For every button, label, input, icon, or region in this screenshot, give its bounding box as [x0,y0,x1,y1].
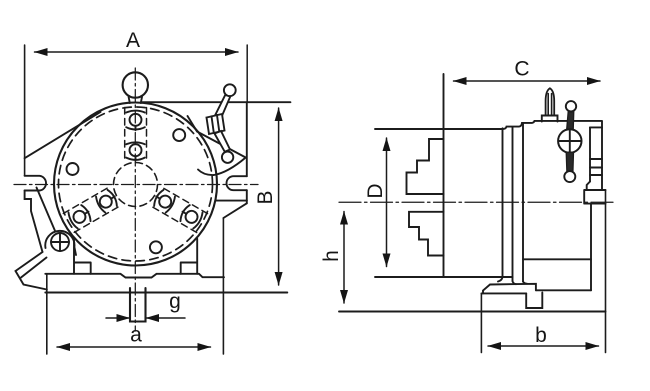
left edge below slot [25,191,43,253]
dimension A line [34,48,239,56]
svg-text:h: h [320,250,343,262]
rear step plate [584,190,605,204]
jaw lower-right [149,186,208,232]
lower jaw steps [409,212,444,256]
dimension h line [340,211,348,304]
rear base line [536,289,591,291]
base front edge + b extension [480,293,482,352]
base bottom line + B extension [45,292,287,294]
extension line A right [246,45,248,102]
rear block step lines [590,159,602,175]
left strut diagonal [37,188,56,233]
body top line right [141,101,290,103]
lever pin [222,152,233,163]
svg-text:A: A [126,29,140,52]
clamp screw boss [45,231,76,255]
left T-slot [25,176,46,191]
rear base top [523,258,591,260]
chuck bottom / D bottom extension [375,276,513,278]
face hole top-right [173,129,185,141]
rear block top step [590,126,602,128]
lever ball [224,84,236,96]
left lug inner line [21,258,47,278]
handle hub cross [559,130,582,152]
side centerline [339,201,614,203]
rear lower vertical [590,204,592,291]
lever hub [207,114,225,134]
left cradle steps [74,239,91,274]
dimension b line [488,342,600,350]
lever hub inner lines [212,115,220,133]
knob stem [129,97,142,103]
svg-text:C: C [514,58,529,81]
plunger base [542,116,558,122]
latch plate top edge [188,116,246,158]
plunger blade inner lines [548,94,551,116]
upper jaw steps [407,139,444,194]
clamp screw circle [51,233,69,251]
body right edge [246,102,248,176]
handle hub [558,129,581,152]
body front wall [502,128,504,277]
plunger blade [546,88,555,115]
dimension B line [275,108,283,286]
base front top [481,292,526,294]
foot wedge [483,284,536,294]
top line / D top extension [375,121,602,129]
right fillet diagonal [223,203,246,218]
vertical centerline [134,68,136,331]
central bore dashed circle [114,163,158,207]
handle lower arm [566,152,573,172]
chuck outer circle [54,103,217,266]
left wedge slope [25,112,101,158]
left lug [16,252,47,290]
face hole left [67,163,79,175]
base bottom / h extension [339,311,606,313]
right boss bottom line [216,200,247,202]
svg-text:a: a [130,324,142,347]
right cradle steps [181,239,198,274]
right T-slot [227,176,247,190]
right base edge + a extension [222,218,224,354]
base top line with notch [45,274,224,278]
rear outer edge lower + b extension [605,190,607,353]
svg-text:b: b [535,324,547,347]
right edge below slot [246,190,248,203]
rear jog [587,182,590,191]
latch plate bottom edge [198,158,246,176]
handle lower ball [564,171,575,182]
lever shaft [216,95,231,116]
rear edge upper [601,122,603,191]
body front wall 3 [522,124,524,282]
column foot flares [498,277,527,284]
svg-text:B: B [254,190,277,204]
handle neck [567,111,574,131]
clamp screw cross [51,233,69,251]
svg-text:D: D [364,183,387,198]
tenon tab side [526,293,542,309]
lever lower arm [215,131,231,152]
svg-text:g: g [169,290,181,313]
dimension g arrows [106,314,185,322]
jaw top [125,108,147,163]
chuck face / C extension [443,74,445,277]
dimension a line [57,343,212,351]
dimension C line [453,77,601,85]
left base edge + a extension [46,274,48,354]
face hole bottom [150,241,162,253]
body left edge / A extension [24,45,26,176]
chuck dashed circle [59,107,213,261]
top knob circle [123,72,148,97]
body front wall 2 [512,127,514,281]
horizontal centerline [14,184,258,186]
tenon [130,288,146,322]
rear inner vertical [589,127,591,181]
dimension D line [383,138,391,268]
jaw lower-left [63,186,122,232]
handle ball top [566,101,576,111]
